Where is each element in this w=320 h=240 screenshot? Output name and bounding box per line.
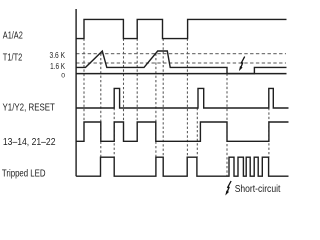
svg-text:3.6 K: 3.6 K <box>50 51 66 60</box>
svg-text:A1/A2: A1/A2 <box>3 30 23 41</box>
svg-text:T1/T2: T1/T2 <box>3 53 23 64</box>
svg-text:1.6 K: 1.6 K <box>50 62 65 71</box>
svg-text:Short-circuit: Short-circuit <box>235 184 281 195</box>
svg-text:Tripped LED: Tripped LED <box>2 168 46 179</box>
svg-text:13–14, 21–22: 13–14, 21–22 <box>3 137 56 148</box>
svg-text:Y1/Y2, RESET: Y1/Y2, RESET <box>3 102 55 113</box>
svg-text:0: 0 <box>61 72 65 79</box>
